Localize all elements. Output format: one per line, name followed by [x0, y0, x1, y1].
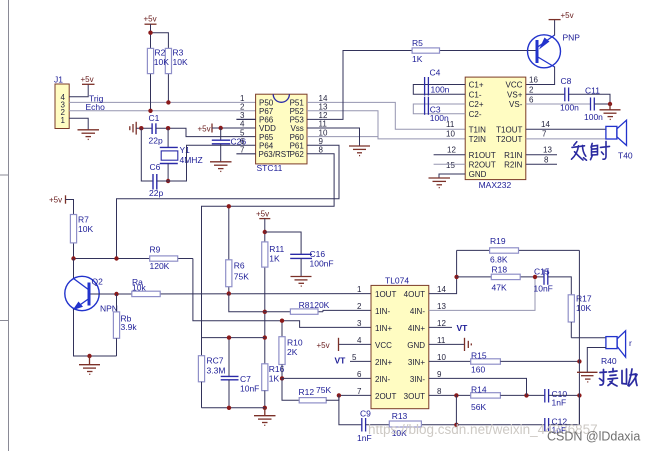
stub pin7 P63/RST — [236, 153, 255, 155]
svg-text:VT: VT — [335, 356, 347, 366]
svg-text:7: 7 — [542, 130, 547, 139]
svg-text:7: 7 — [240, 146, 245, 155]
svg-text:C16: C16 — [310, 249, 326, 259]
svg-text:3IN+: 3IN+ — [408, 358, 425, 367]
power +5v at VDD — [211, 124, 213, 133]
svg-text:4IN+: 4IN+ — [408, 324, 425, 333]
svg-text:J1: J1 — [54, 75, 63, 85]
svg-text:+5v: +5v — [49, 196, 62, 205]
stub R2OUT — [434, 163, 466, 165]
svg-text:R18: R18 — [492, 264, 508, 274]
ground below C16 — [291, 277, 312, 287]
power +5v above R2 R3 — [145, 23, 157, 25]
junction P61 node — [114, 256, 118, 260]
svg-text:10K: 10K — [154, 57, 169, 67]
MAX232 pin numbers — [446, 76, 552, 171]
wire P53 pin12 up to R5 — [307, 51, 412, 120]
connector J1 — [54, 75, 69, 129]
svg-text:4MHZ: 4MHZ — [180, 155, 203, 165]
svg-text:6.8K: 6.8K — [490, 255, 508, 265]
wire +5v to R11 — [264, 219, 266, 242]
junction C16 branch — [263, 230, 267, 234]
power +5v left of R7 — [65, 195, 67, 203]
svg-text:VCC: VCC — [375, 341, 392, 350]
ground sideways left of C1 — [130, 122, 136, 135]
wire C9 to R13 — [366, 424, 390, 426]
resistor R19 6.8K — [490, 236, 519, 265]
svg-text:+5v: +5v — [144, 15, 157, 24]
svg-text:10nF: 10nF — [534, 284, 553, 294]
junction C8 C11 node — [608, 102, 612, 106]
svg-text:Y1: Y1 — [180, 145, 191, 155]
wire Q2 emitter to ground rail — [74, 309, 117, 356]
svg-text:14: 14 — [541, 120, 550, 129]
junction C7 top — [227, 335, 231, 339]
junction pin8 C12 branch — [454, 393, 458, 397]
svg-text:14: 14 — [437, 285, 446, 294]
wire to C12 — [456, 424, 544, 426]
wire C6 right to P64 jog — [157, 145, 256, 181]
svg-text:13: 13 — [543, 146, 552, 155]
svg-text:R19: R19 — [490, 236, 506, 246]
svg-text:Echo: Echo — [86, 102, 106, 112]
stub R1IN pin13 — [526, 154, 557, 156]
ground below MAX232 — [429, 178, 451, 188]
capacitor C7 10nF — [221, 338, 260, 408]
resistor R11 1K — [262, 242, 285, 364]
svg-text:R7: R7 — [78, 215, 89, 225]
junction pin13 node — [533, 275, 537, 279]
svg-text:R11: R11 — [269, 244, 284, 254]
svg-text:75K: 75K — [234, 272, 249, 282]
wire ground to C1 left — [136, 127, 152, 129]
capacitor C11 100n — [584, 86, 603, 123]
STC11 right pin numbers — [319, 94, 328, 155]
svg-text:R9: R9 — [150, 245, 161, 255]
svg-text:R1IN: R1IN — [504, 151, 522, 160]
stub 4IN+ pin12 with VT — [429, 326, 452, 328]
ground at Vss — [349, 146, 370, 156]
svg-text:C2-: C2- — [469, 110, 482, 119]
svg-text:47K: 47K — [492, 282, 507, 292]
wire R9 right down to 1IN+ route — [193, 259, 371, 328]
svg-text:r: r — [629, 338, 632, 348]
svg-text:1K: 1K — [269, 374, 280, 384]
svg-text:16: 16 — [529, 76, 538, 85]
svg-text:1IN-: 1IN- — [375, 307, 390, 316]
wire 3OUT pin8 row — [429, 394, 471, 396]
wire RC7 C7 top rail — [202, 337, 265, 339]
ground below R16 — [254, 408, 276, 426]
resistor R7 10K — [70, 215, 93, 259]
svg-text:7: 7 — [357, 387, 362, 396]
svg-text:R2IN: R2IN — [504, 160, 522, 169]
svg-text:12: 12 — [437, 319, 446, 328]
svg-text:6: 6 — [529, 95, 534, 104]
junction Y1 bottom — [166, 179, 170, 183]
wire 4OUT pin14 to R18 node — [429, 250, 457, 293]
svg-text:C8: C8 — [561, 76, 572, 86]
svg-text:56K: 56K — [471, 402, 486, 412]
svg-text:C1: C1 — [149, 113, 160, 123]
wire speaker bottom to ground — [587, 348, 606, 373]
resistor R10 2K — [279, 321, 303, 379]
svg-text:2IN+: 2IN+ — [375, 358, 392, 367]
wire C3 loop — [413, 104, 465, 114]
junction 2OUT node — [337, 393, 341, 397]
junction C12 row left — [454, 423, 458, 427]
wire 2IN- row — [282, 377, 371, 379]
power +5v above PNP — [549, 19, 561, 21]
stub R1OUT — [434, 154, 466, 156]
svg-text:R14: R14 — [471, 384, 487, 394]
svg-text:13: 13 — [437, 302, 446, 311]
svg-text:C4: C4 — [430, 68, 441, 78]
capacitor C26 — [212, 128, 247, 162]
wire VS+ to C8 — [526, 93, 565, 95]
capacitor C1 22p — [149, 113, 163, 146]
wire P60 pin10 row — [307, 136, 378, 138]
svg-text:3.3M: 3.3M — [207, 366, 226, 376]
junction C7 bottom — [227, 406, 231, 410]
wire PNP emitter to +5v — [554, 20, 556, 36]
wire PNP collector to VCC pin16 — [526, 67, 555, 85]
resistor RC7 3.3M — [198, 356, 225, 408]
svg-text:+5v: +5v — [81, 75, 94, 84]
svg-text:VS+: VS+ — [507, 91, 523, 100]
junction R10 top on 1IN+ route — [280, 319, 284, 323]
power bar at TL074 GND pin11 — [429, 343, 464, 345]
junction R6 bottom on 1OUT row — [227, 291, 231, 295]
svg-text:VT: VT — [457, 323, 469, 333]
wire R12 right to 2OUT node — [326, 395, 339, 400]
wire RC7 C7 bottom rail — [202, 407, 265, 409]
wire R14 to C10 — [500, 394, 544, 396]
ground below Q2 — [79, 356, 100, 374]
wire Echo net J1.2 to U-STC pin2 — [69, 110, 256, 112]
wire C8 right down to C11 node — [569, 94, 610, 104]
svg-text:160: 160 — [471, 365, 485, 375]
svg-text:12: 12 — [447, 146, 456, 155]
capacitor C8 100n — [560, 76, 579, 113]
ground at C8 C11 — [600, 104, 621, 119]
svg-text:R6: R6 — [234, 261, 245, 271]
wire R8 to 1IN- pin2 — [323, 310, 371, 311]
speaker T40 — [606, 120, 627, 145]
transistor Q-PNP — [528, 33, 581, 68]
svg-text:R2: R2 — [155, 48, 166, 58]
wire R6 node jog to R8 row — [229, 294, 264, 312]
svg-text:100n: 100n — [584, 112, 603, 122]
svg-text:C7: C7 — [240, 374, 251, 384]
wire C4 loop — [413, 85, 465, 95]
svg-text:C1+: C1+ — [469, 81, 484, 90]
wire +5v to VDD pin4 — [212, 127, 256, 129]
junction R3 on Trig — [166, 100, 170, 104]
IC U-STC11 — [256, 94, 307, 173]
transistor Q2 NPN — [65, 276, 118, 313]
wire branch to C16 — [265, 232, 301, 254]
svg-text:2K: 2K — [287, 347, 298, 357]
TL074 right pin numbers — [437, 285, 446, 396]
wire 4IN- pin13 jog to R18 C15 node — [429, 277, 535, 311]
svg-text:GND: GND — [407, 341, 425, 350]
IC U-TL074 — [371, 276, 429, 409]
ground below C26 — [210, 162, 232, 172]
wire C15 to R17 — [548, 277, 572, 295]
wire 2OUT pin7 node — [339, 394, 371, 396]
ground below speaker R40 — [577, 372, 598, 382]
svg-text:22p: 22p — [149, 188, 163, 198]
svg-text:VS-: VS- — [509, 100, 523, 109]
svg-text:8: 8 — [319, 146, 324, 155]
svg-text:+5v: +5v — [317, 341, 330, 350]
svg-text:2IN-: 2IN- — [375, 375, 390, 384]
svg-text:R40: R40 — [601, 356, 617, 366]
svg-text:120K: 120K — [150, 261, 170, 271]
wire R18 row — [457, 276, 544, 278]
svg-text:C11: C11 — [585, 86, 600, 96]
svg-text:RC7: RC7 — [207, 356, 224, 366]
wire 3IN+ pin10 row R15 — [429, 360, 471, 362]
svg-text:VCC: VCC — [506, 81, 523, 90]
wire 2OUT down to C9 row — [339, 395, 362, 424]
STC11 left pin numbers — [240, 94, 245, 155]
resistor R18 47K — [491, 264, 520, 292]
svg-text:C1-: C1- — [469, 91, 482, 100]
svg-text:+5v: +5v — [561, 11, 574, 20]
capacitor C15 10nF — [534, 267, 553, 294]
svg-text:2: 2 — [529, 86, 534, 95]
resistor R12 75K — [299, 385, 332, 403]
wire R10 node down to R12 — [282, 378, 299, 400]
svg-text:R8: R8 — [299, 300, 310, 310]
svg-text:10k: 10k — [132, 282, 146, 292]
wire T1OUT to speaker — [526, 128, 606, 130]
svg-text:9: 9 — [437, 370, 442, 379]
svg-text:T1OUT: T1OUT — [496, 126, 522, 135]
resistor R2 — [147, 48, 153, 110]
capacitor C4 100n — [425, 68, 450, 96]
svg-text:10: 10 — [437, 353, 446, 362]
svg-text:10K: 10K — [78, 224, 93, 234]
svg-text:C6: C6 — [150, 162, 161, 172]
resistor Ra 10k — [132, 277, 160, 297]
junction R6 top on P62 route — [227, 204, 231, 208]
crystal Y1 4MHZ — [160, 128, 203, 181]
svg-text:R10: R10 — [287, 338, 303, 348]
wire T2OUT to speaker — [526, 138, 606, 140]
svg-text:11: 11 — [437, 336, 446, 345]
wire Q2 collector — [73, 259, 75, 279]
wire +5v to R7 — [66, 200, 74, 215]
svg-text:75K: 75K — [316, 385, 331, 395]
label R3 10K — [173, 48, 188, 68]
junction C26 top — [219, 126, 223, 130]
junction R7 bottom — [71, 256, 75, 260]
svg-text:8: 8 — [437, 387, 442, 396]
wire R8 row — [264, 311, 323, 313]
svg-text:+5v: +5v — [256, 209, 269, 218]
capacitor C3 100n — [425, 97, 449, 123]
capacitor C16 100nF — [290, 249, 333, 277]
svg-text:1K: 1K — [269, 254, 280, 264]
svg-text:Q2: Q2 — [92, 277, 104, 287]
junction R15 column — [577, 359, 581, 363]
svg-text:+5v: +5v — [198, 124, 211, 133]
junction Rb top — [114, 292, 118, 296]
svg-text:1K: 1K — [412, 54, 423, 64]
capacitor C12 1nF — [545, 417, 568, 436]
resistor R9 120K — [150, 245, 178, 272]
wire C1 right to P65 jog — [156, 128, 256, 136]
wire P52 pin13 to T2IN — [307, 111, 465, 139]
svg-text:8: 8 — [544, 155, 549, 164]
wire C10 right to column — [549, 394, 580, 396]
power +5v at TL074 VCC — [339, 343, 371, 345]
capacitor C9 1nF — [357, 409, 372, 444]
resistor R17 10K — [568, 294, 592, 338]
svg-text:2OUT: 2OUT — [375, 392, 396, 401]
sheet border left edge — [0, 0, 9, 451]
svg-text:1nF: 1nF — [552, 398, 567, 408]
svg-text:100nF: 100nF — [310, 259, 334, 269]
svg-text:T2OUT: T2OUT — [496, 135, 522, 144]
svg-text:1IN+: 1IN+ — [375, 324, 392, 333]
wire R19 column down — [578, 250, 580, 424]
svg-text:4OUT: 4OUT — [404, 290, 425, 299]
svg-text:10K: 10K — [173, 57, 188, 67]
junction R11 column on RC7 rail — [263, 335, 267, 339]
stub R2IN pin8 — [526, 163, 557, 165]
svg-text:10: 10 — [446, 130, 455, 139]
stub 2IN+ pin5 with VT — [350, 360, 371, 362]
svg-text:10K: 10K — [576, 303, 591, 313]
wire Trig net J1.3 to U-STC pin1 — [69, 101, 256, 103]
svg-text:3: 3 — [357, 319, 362, 328]
resistor R16 1K — [262, 364, 285, 408]
junction R11 column on R8 row — [263, 310, 267, 314]
resistor R15 160 — [471, 350, 501, 374]
wire R9 row — [74, 258, 193, 260]
ground below J1 — [78, 130, 100, 140]
power +5v above R11 — [259, 218, 270, 220]
svg-text:R2OUT: R2OUT — [469, 160, 496, 169]
junction Y1 top — [166, 126, 170, 130]
junction C1 left — [139, 126, 143, 130]
svg-text:10nF: 10nF — [240, 384, 259, 394]
wire C11 to node — [594, 103, 610, 105]
svg-text:6: 6 — [357, 370, 362, 379]
svg-text:1: 1 — [357, 285, 362, 294]
stub pin3 P66 — [236, 118, 255, 120]
svg-text:15: 15 — [446, 161, 455, 170]
junction R16 bottom — [263, 406, 267, 410]
svg-text:C9: C9 — [360, 409, 371, 419]
svg-text:R13: R13 — [392, 411, 408, 421]
speaker R40 — [606, 331, 626, 357]
svg-text:MAX232: MAX232 — [479, 180, 512, 190]
power +5v above J1 — [82, 83, 95, 85]
svg-text:PNP: PNP — [563, 33, 581, 43]
wire J1 pin4 to +5v — [69, 84, 88, 96]
wire R19 row — [457, 249, 580, 251]
junction R2 on Echo — [148, 109, 152, 113]
svg-text:22p: 22p — [149, 136, 163, 146]
wire R15 to column — [500, 360, 579, 362]
svg-text:R15: R15 — [471, 350, 487, 360]
svg-text:C2+: C2+ — [469, 100, 484, 109]
resistor R5 1K — [412, 38, 537, 64]
svg-text:120K: 120K — [310, 300, 330, 310]
svg-text:R12: R12 — [299, 387, 315, 397]
wire 3IN- pin9 jog — [429, 378, 527, 395]
wire pin8 down to C12 row — [455, 395, 457, 424]
capacitor C10 1nF — [545, 389, 568, 408]
svg-text:R1OUT: R1OUT — [469, 151, 496, 160]
wire P51 pin14 to T1IN — [307, 102, 465, 129]
svg-text:GND: GND — [469, 170, 487, 179]
svg-text:100n: 100n — [430, 113, 449, 123]
wire VS- to C11 — [526, 103, 591, 105]
junction pin9 jog — [524, 393, 528, 397]
svg-text:2: 2 — [357, 302, 362, 311]
text 发射 transmit — [572, 141, 610, 160]
wire P61 pin9 long route to R9 node — [117, 145, 340, 258]
junction emitter ground — [87, 354, 91, 358]
svg-text:C15: C15 — [534, 267, 550, 277]
wire base row 1OUT net — [91, 293, 372, 295]
wire +5v rail to R2 R3 tops — [151, 24, 169, 48]
svg-text:T2IN: T2IN — [469, 135, 487, 144]
resistor R3 — [165, 48, 171, 102]
resistor Rb 3.9k — [113, 294, 137, 356]
resistor R6 75K — [226, 206, 250, 293]
resistor R13 10K — [389, 411, 456, 438]
svg-text:T40: T40 — [618, 151, 633, 161]
wire R17 to speaker R40 — [571, 337, 606, 339]
junction R18 left — [454, 275, 458, 279]
svg-text:5: 5 — [352, 353, 357, 362]
svg-text:T1IN: T1IN — [469, 126, 487, 135]
junction C10 column — [577, 393, 581, 397]
TL074 left pin numbers — [352, 285, 362, 396]
svg-text:100n: 100n — [431, 84, 450, 94]
resistor R8 120K — [290, 300, 329, 314]
svg-text:1OUT: 1OUT — [375, 290, 396, 299]
svg-text:P62: P62 — [290, 150, 305, 159]
wire C12 right up — [549, 395, 580, 424]
junction at +5v rail — [148, 31, 152, 35]
svg-text:R3: R3 — [173, 48, 184, 58]
label R2 10K — [154, 48, 169, 68]
svg-text:TL074: TL074 — [385, 276, 409, 286]
wire GND pin15 to ground — [439, 174, 465, 178]
svg-text:4IN-: 4IN- — [410, 307, 425, 316]
wire Vss pin11 to ground — [307, 128, 360, 146]
capacitor C6 22p — [149, 162, 163, 198]
svg-text:CSDN @lDdaxia: CSDN @lDdaxia — [547, 430, 640, 444]
wire P62 pin8 route to RC7 rail — [202, 154, 335, 356]
resistor R14 56K — [471, 384, 501, 412]
wire J1 pin1 to ground — [69, 118, 88, 130]
svg-text:1: 1 — [61, 116, 66, 125]
svg-text:3IN-: 3IN- — [410, 375, 425, 384]
svg-text:R5: R5 — [412, 38, 423, 48]
text 接收 receive — [600, 369, 638, 387]
svg-text:P63/RST: P63/RST — [259, 150, 292, 159]
svg-text:4: 4 — [357, 336, 362, 345]
